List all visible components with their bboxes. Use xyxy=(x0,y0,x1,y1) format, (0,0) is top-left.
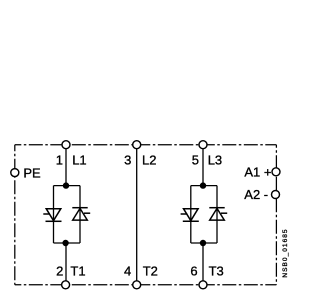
terminal 2 xyxy=(62,281,70,289)
wire L2 to T2 (uncontrolled phase) xyxy=(136,145,138,285)
terminal 6 xyxy=(199,281,207,289)
svg-text:1: 1 xyxy=(56,153,63,168)
wire L3 branch right rail xyxy=(216,186,218,243)
svg-text:T1: T1 xyxy=(70,264,85,279)
svg-text:2: 2 xyxy=(56,264,63,279)
terminal A2 xyxy=(272,191,280,199)
svg-text:4: 4 xyxy=(124,264,131,279)
terminal PE xyxy=(11,169,19,177)
svg-text:L2: L2 xyxy=(142,153,156,168)
wire L1 branch left rail xyxy=(53,186,55,243)
terminal 1 xyxy=(62,141,70,149)
wire L1 input xyxy=(65,145,67,186)
node junction T1 bottom xyxy=(62,240,68,246)
svg-text:A2 -: A2 - xyxy=(244,187,268,202)
svg-text:NSB0_01685: NSB0_01685 xyxy=(282,228,289,277)
wire L3 branch bottom xyxy=(191,242,217,244)
svg-text:3: 3 xyxy=(124,153,131,168)
svg-text:6: 6 xyxy=(190,264,197,279)
thyristor phase L1 forward (down) xyxy=(43,209,61,222)
node junction L3 top xyxy=(200,182,206,188)
svg-text:PE: PE xyxy=(23,166,41,181)
svg-text:T2: T2 xyxy=(143,264,158,279)
terminal 5 xyxy=(199,141,207,149)
svg-text:T3: T3 xyxy=(209,264,224,279)
terminal A1 xyxy=(272,168,280,176)
node junction T3 bottom xyxy=(200,240,206,246)
enclosure border top xyxy=(15,144,277,146)
node junction L1 top xyxy=(63,182,69,188)
thyristor phase L1 reverse (up) xyxy=(72,208,90,220)
enclosure border right xyxy=(275,145,277,285)
wire L1 branch top xyxy=(54,185,81,187)
wire L3 input xyxy=(202,145,204,186)
thyristor phase L3 reverse (up) xyxy=(209,208,227,220)
terminal 4 xyxy=(133,281,141,289)
wire L3 branch top xyxy=(191,185,217,187)
wire L3 branch left rail xyxy=(190,186,192,243)
wire T3 output xyxy=(202,243,204,285)
thyristor phase L3 forward (down) xyxy=(181,209,199,222)
wire L1 branch bottom xyxy=(54,242,81,244)
svg-text:5: 5 xyxy=(192,153,199,168)
wire L1 branch right rail xyxy=(79,186,81,243)
terminal 3 xyxy=(133,141,141,149)
enclosure border bottom xyxy=(15,284,277,286)
enclosure border left xyxy=(14,145,16,285)
svg-text:L1: L1 xyxy=(72,153,86,168)
svg-text:A1 +: A1 + xyxy=(244,165,271,180)
svg-text:L3: L3 xyxy=(208,153,222,168)
wire T1 output xyxy=(65,243,67,285)
